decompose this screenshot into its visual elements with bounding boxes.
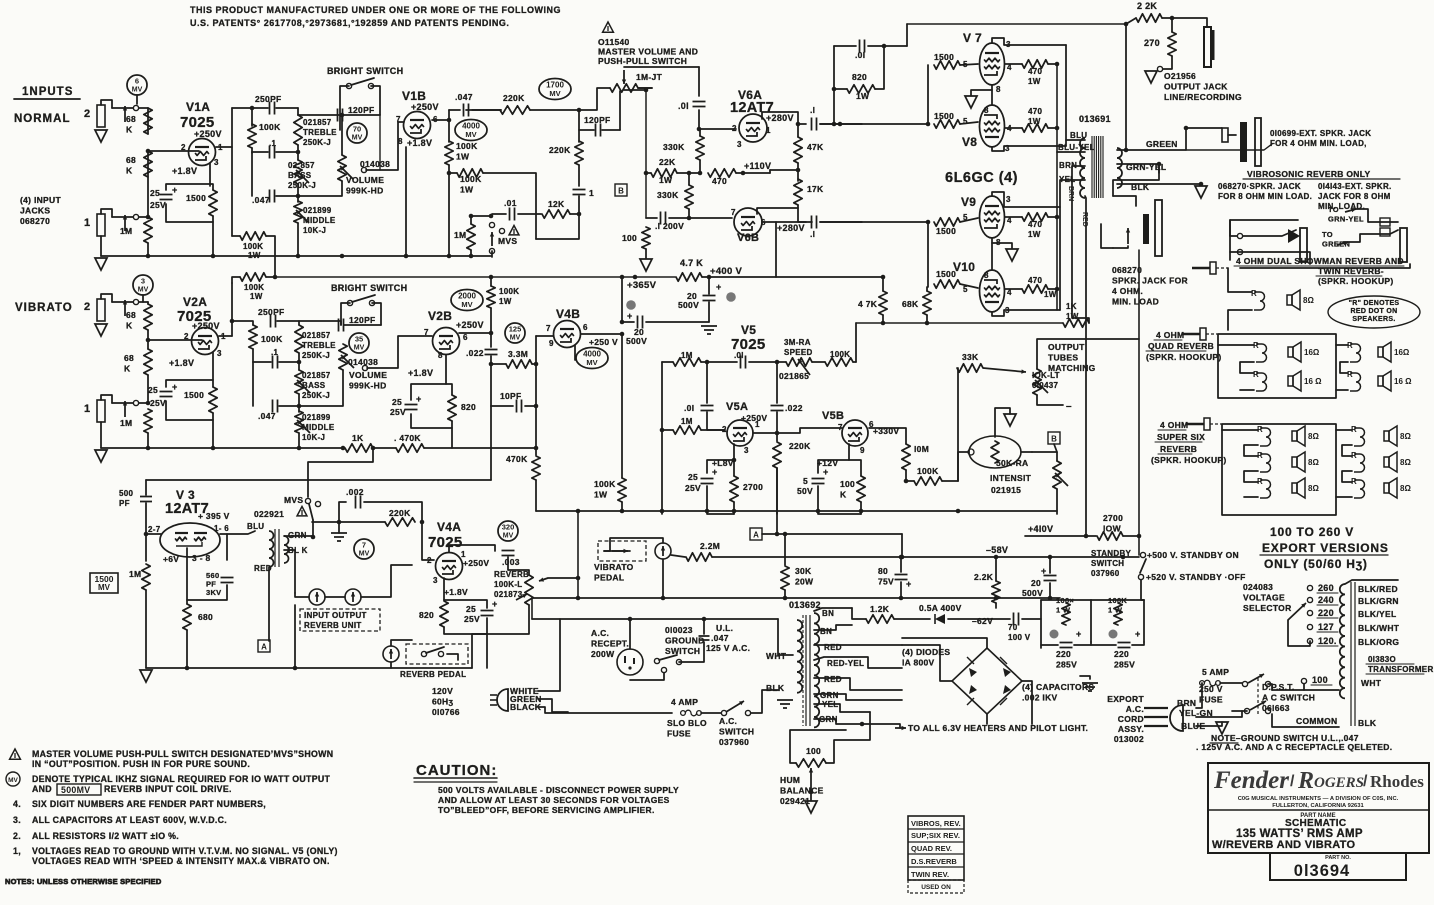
- label 010699 EXT SPKR JACK FOR 4 OHM MIN LOAD: [1270, 129, 1371, 148]
- label (4) DIODES 1A 800V: [902, 647, 950, 668]
- label 014143 EXT SPKR JACK FOR 8 OHM MIN LOAD: [1318, 182, 1392, 211]
- svg-text:1 W: 1 W: [1056, 606, 1071, 615]
- svg-text:REVERB: REVERB: [1160, 444, 1197, 454]
- svg-text:–62V: –62V: [972, 616, 993, 626]
- capacitor 220 285V: [1118, 643, 1131, 648]
- diode 0.5A 400V: [935, 614, 945, 624]
- svg-text:1500: 1500: [934, 111, 954, 121]
- svg-text:250PF: 250PF: [258, 307, 285, 317]
- wire: [448, 110, 450, 142]
- wire: [960, 122, 978, 124]
- ext speaker jack 010699: [1222, 118, 1261, 166]
- resistor 1500: [209, 387, 217, 413]
- wire: [411, 384, 452, 400]
- svg-text:+280V: +280V: [766, 113, 794, 123]
- wire: [812, 361, 825, 363]
- underline: [1158, 429, 1186, 431]
- svg-text:5 AMP: 5 AMP: [1202, 667, 1229, 677]
- svg-text:R: R: [1253, 370, 1259, 379]
- label 100K 1W: [1108, 596, 1127, 615]
- wire: [645, 249, 647, 258]
- junction: [469, 254, 474, 259]
- svg-text:+400 V: +400 V: [710, 266, 743, 277]
- input jack 2: [97, 105, 105, 127]
- capacitor 560PF 3KV: [221, 578, 234, 583]
- resistor 4.7K: [676, 273, 702, 281]
- resistor 1500 grid V8: [934, 120, 960, 128]
- wire: [297, 108, 299, 115]
- wire 220K down: [776, 468, 778, 534]
- wire: [186, 548, 188, 604]
- svg-text:DENOTE TYPICAL IKHZ SIGNAL: DENOTE TYPICAL IKHZ SIGNAL REQUIRED FOR …: [32, 774, 331, 784]
- svg-text:BLK/YEL: BLK/YEL: [1358, 609, 1396, 619]
- resistor 33K: [957, 364, 983, 372]
- potentiometer 3M-RA speed: [786, 358, 812, 375]
- svg-text:250K-J: 250K-J: [288, 181, 316, 190]
- wire: [490, 308, 492, 347]
- terminal: [1307, 610, 1312, 615]
- switch lever: [426, 647, 444, 653]
- svg-text:TRANSFORMER: TRANSFORMER: [1368, 665, 1434, 674]
- signal level marker: [349, 333, 369, 353]
- svg-text:470: 470: [1028, 67, 1042, 76]
- svg-text:PEDAL: PEDAL: [594, 573, 624, 583]
- wire: [1342, 445, 1352, 456]
- wire: [960, 284, 978, 288]
- svg-text:1,: 1,: [13, 846, 21, 856]
- svg-text:021857: 021857: [302, 331, 331, 340]
- wire: [252, 349, 254, 362]
- label 021857 TREBLE 250K-J: [303, 118, 337, 147]
- capacitor 250PF: [270, 102, 275, 115]
- svg-text:013002: 013002: [1114, 734, 1144, 744]
- wire: [535, 480, 537, 511]
- B+ rail: [275, 276, 675, 278]
- capacitor 500PF: [140, 497, 152, 502]
- resistor 100K 1W plate feed: [240, 232, 266, 240]
- wire: [958, 452, 969, 481]
- wire: [447, 654, 458, 660]
- wire drive upper: [820, 123, 928, 125]
- svg-text:1500: 1500: [936, 226, 956, 236]
- svg-text:+: +: [1135, 629, 1141, 639]
- svg-text:068270: 068270: [1112, 265, 1142, 275]
- junction: [296, 194, 301, 199]
- label 68K: [124, 353, 134, 374]
- junction: [832, 122, 837, 127]
- svg-text:l0M: l0M: [914, 444, 929, 454]
- resistor 330K: [685, 185, 693, 209]
- wire: [1171, 18, 1173, 32]
- wire: [707, 412, 725, 430]
- junction: [146, 149, 151, 154]
- junction: [273, 275, 278, 280]
- junction: [576, 509, 581, 514]
- ground V9 V10 cathodes: [1006, 249, 1018, 261]
- junction: [1184, 126, 1189, 131]
- svg-text:25V: 25V: [390, 407, 406, 417]
- label 68K: [126, 114, 136, 135]
- wire: [1232, 710, 1247, 712]
- svg-text:BLK/GRN: BLK/GRN: [1358, 596, 1399, 606]
- svg-text:RED: RED: [824, 675, 842, 684]
- AC switch lever arrow: [726, 701, 744, 712]
- svg-text:.0l: .0l: [855, 50, 865, 60]
- svg-text:BLK/WHT: BLK/WHT: [1358, 623, 1400, 633]
- junction: [687, 216, 692, 221]
- wire: [1005, 63, 1022, 65]
- volume wiper terminal: [361, 167, 366, 172]
- junction: [297, 360, 302, 365]
- svg-text:25V: 25V: [685, 483, 701, 493]
- wire: [749, 361, 786, 363]
- label 220 285V: [1056, 649, 1077, 670]
- jack tip arrow: [1288, 229, 1300, 243]
- potentiometer VOLUME 999K-HD: [338, 155, 353, 181]
- speaker: [1292, 426, 1319, 446]
- svg-text:8: 8: [984, 271, 989, 280]
- terminal: [305, 498, 310, 503]
- svg-text:8Ω: 8Ω: [1308, 432, 1319, 441]
- wire: [688, 173, 690, 185]
- junction: [882, 44, 887, 49]
- label 470 1W: [1028, 107, 1042, 126]
- svg-text:.0l: .0l: [678, 101, 689, 111]
- svg-text:7: 7: [731, 208, 736, 217]
- resistor 1500 grid V9: [934, 218, 960, 226]
- wire common: [1272, 714, 1339, 727]
- svg-text:4 OHM DUAL SHOWMAN REVERB: 4 OHM DUAL SHOWMAN REVERB AND: [1236, 256, 1404, 266]
- resistor 1500: [209, 190, 217, 216]
- wire: [621, 277, 623, 322]
- wire bright to treble top: [299, 321, 341, 325]
- terminal: [1307, 597, 1312, 602]
- wire: [295, 593, 309, 597]
- wire: [834, 45, 856, 47]
- wire: [373, 447, 396, 449]
- wire BLUE: [1196, 722, 1222, 726]
- resistor 100K 1W horizontal: [457, 169, 483, 177]
- svg-text:8Ω: 8Ω: [1400, 484, 1411, 493]
- junction: [633, 275, 638, 280]
- wire: [1141, 580, 1144, 600]
- R coil quad: [1253, 370, 1267, 391]
- resistor 10M: [902, 444, 910, 470]
- underline caution 2: [414, 781, 497, 783]
- label R DENOTES RED DOT ON SPEAKERS: [1349, 300, 1400, 323]
- resistor 2.2M: [686, 553, 712, 561]
- svg-text:K: K: [126, 166, 133, 176]
- svg-text:+1.8V: +1.8V: [169, 358, 194, 368]
- wire up to output jack: [1125, 24, 1127, 150]
- svg-text:470: 470: [1028, 220, 1042, 229]
- wire: [1117, 183, 1201, 185]
- wire: [339, 521, 385, 523]
- jack 2 contact arrow: [123, 106, 127, 122]
- title block outer box: [1208, 763, 1429, 853]
- wire: [604, 538, 663, 551]
- switch lever: [351, 78, 374, 85]
- svg-text:–: –: [1066, 401, 1072, 412]
- svg-text:.l 200V: .l 200V: [655, 221, 684, 231]
- wire: [1336, 389, 1348, 391]
- wire: [339, 502, 346, 522]
- svg-text:INPUT OUTPUT: INPUT OUTPUT: [304, 611, 367, 620]
- label 100K 1W: [460, 174, 482, 195]
- switch lever: [352, 295, 375, 302]
- wire: [995, 408, 1010, 437]
- svg-text:A C SWITCH: A C SWITCH: [1262, 693, 1315, 703]
- svg-text:EXPORT VERSIONS: EXPORT VERSIONS: [1262, 541, 1389, 555]
- svg-text:1500: 1500: [184, 390, 204, 400]
- wire: [578, 165, 580, 186]
- svg-text:MV: MV: [465, 130, 476, 139]
- title block divider: [1208, 809, 1429, 811]
- junction: [250, 106, 255, 111]
- svg-text:B: B: [618, 187, 624, 196]
- terminal: [489, 248, 494, 253]
- wire return to V4A grid: [361, 565, 412, 597]
- svg-text:999K-HD: 999K-HD: [346, 186, 384, 196]
- jack 1 sleeve to bus: [100, 236, 102, 256]
- resistor 470 1W V10: [1022, 285, 1048, 293]
- wire from coupling node: [490, 406, 492, 480]
- wire: [1040, 600, 1042, 648]
- wire: [1222, 429, 1258, 431]
- svg-text:REVERB INPUT COIL DRIVE.: REVERB INPUT COIL DRIVE.: [104, 784, 232, 794]
- capacitor .01: [693, 102, 706, 107]
- svg-text:NORMAL: NORMAL: [14, 113, 70, 125]
- svg-text:SLO BLO: SLO BLO: [667, 718, 707, 728]
- wire: [232, 235, 240, 237]
- R coil quad: [1347, 370, 1361, 391]
- wire: [1049, 583, 1051, 598]
- wire bottom: [1240, 264, 1410, 268]
- node A: [258, 640, 270, 652]
- label 100K 1W: [499, 287, 519, 306]
- svg-text:5: 5: [803, 476, 808, 486]
- svg-text:JACK FOR 8 OHM: JACK FOR 8 OHM: [1318, 192, 1391, 201]
- svg-text:MV: MV: [586, 358, 597, 367]
- wire push-pull: [624, 66, 699, 68]
- label DPST AC SWITCH 061663: [1262, 682, 1315, 713]
- resistor 100K 1W: [445, 141, 453, 165]
- tap underline: [1317, 617, 1338, 619]
- svg-text:0I0766: 0I0766: [432, 707, 460, 717]
- junction: [489, 214, 494, 219]
- wire in pedal box: [604, 550, 630, 552]
- quad hookup loop: [1218, 334, 1336, 398]
- svg-text:8Ω: 8Ω: [1308, 484, 1319, 493]
- wire: [894, 618, 930, 620]
- terminal: [1242, 681, 1247, 686]
- svg-text:1W: 1W: [856, 91, 870, 101]
- wire: [814, 657, 902, 668]
- wire cathode rc top: [166, 184, 213, 190]
- svg-text:02:857: 02:857: [288, 161, 315, 170]
- svg-text:250PF: 250PF: [255, 94, 282, 104]
- ground output jack: [1145, 71, 1157, 83]
- junction: [926, 122, 931, 127]
- wire: [820, 221, 862, 223]
- wire: [1240, 389, 1254, 391]
- junction: [489, 275, 494, 280]
- svg-text:330K: 330K: [657, 190, 679, 200]
- triode V6A: [739, 114, 767, 142]
- capacitor 20 500V: [1044, 576, 1057, 581]
- bias line -58V: [712, 556, 1139, 558]
- junction: [698, 171, 703, 176]
- label 1K 1W: [1066, 302, 1079, 321]
- terminal: [654, 658, 659, 663]
- capacitor 20 500V: [638, 316, 643, 329]
- svg-text:25: 25: [688, 472, 698, 482]
- resistor 68K lower: [144, 349, 152, 375]
- svg-text:FULLERTON, CALIFORNIA 92631: FULLERTON, CALIFORNIA 92631: [1272, 803, 1364, 809]
- svg-text:STANDBY: STANDBY: [1091, 549, 1132, 558]
- wire: [733, 460, 735, 476]
- wire: [1048, 63, 1057, 65]
- triode V4B: [554, 321, 581, 348]
- wire to gnd bus: [147, 243, 149, 256]
- underline: [1260, 554, 1388, 556]
- wire: [531, 598, 533, 619]
- svg-text:VOLUME: VOLUME: [346, 175, 384, 185]
- wire to tone stack: [232, 107, 268, 109]
- input jack 2 vibrato: [97, 299, 105, 321]
- wire: [621, 334, 623, 478]
- resistor 100K 1W: [240, 273, 266, 281]
- svg-text:50V: 50V: [797, 486, 813, 496]
- junction: [732, 458, 737, 463]
- wire: [900, 557, 902, 572]
- wire: [1005, 216, 1022, 218]
- svg-text:10K-J: 10K-J: [302, 433, 325, 442]
- svg-text:+: +: [823, 467, 829, 477]
- svg-text:SIX DIGIT NUMBERS ARE FEND: SIX DIGIT NUMBERS ARE FENDER PART NUMBER…: [32, 799, 266, 809]
- label 68K: [126, 310, 136, 331]
- screen bus upper: [1056, 64, 1058, 152]
- svg-text:8: 8: [996, 85, 1001, 94]
- svg-text:220: 220: [1318, 608, 1334, 618]
- jack terminal: [133, 299, 138, 304]
- junction: [620, 275, 625, 280]
- wire: [279, 361, 299, 363]
- wire: [769, 170, 771, 173]
- wire: [252, 362, 254, 406]
- wire: [411, 414, 452, 428]
- wire: [112, 402, 148, 404]
- model table: [908, 816, 964, 880]
- wire to V4B grid node: [424, 447, 536, 449]
- terminal: [421, 651, 426, 656]
- wire: [1220, 682, 1242, 684]
- resistor 820: [448, 395, 456, 421]
- wire: [1352, 209, 1398, 222]
- wire: [444, 600, 487, 608]
- signal level marker: [498, 521, 518, 541]
- R coil super six: [1257, 425, 1271, 446]
- wire: [1229, 220, 1231, 260]
- svg-text:PUSH-PULL SWITCH: PUSH-PULL SWITCH: [598, 56, 687, 66]
- wire: [276, 151, 298, 153]
- wire: [251, 108, 253, 126]
- wire BLK/RED top: [1345, 580, 1398, 584]
- label 70 100V: [1008, 623, 1031, 642]
- wire: [834, 88, 847, 90]
- wire BLU-YEL: [1057, 151, 1085, 153]
- svg-text:100: 100: [806, 746, 821, 756]
- speaker: [1378, 371, 1412, 391]
- junction: [1199, 182, 1204, 187]
- plate wire V6B: [762, 221, 806, 223]
- wire: [1230, 230, 1296, 236]
- label 470 1W: [1028, 67, 1042, 86]
- svg-text:+1.8V: +1.8V: [172, 166, 197, 176]
- ground: [1004, 414, 1016, 426]
- primary winding: [269, 531, 274, 567]
- wire BLK down: [284, 550, 295, 593]
- wire: [629, 619, 631, 649]
- svg-text:MV: MV: [132, 87, 143, 94]
- svg-text:MV: MV: [461, 300, 472, 309]
- wire: [638, 87, 652, 89]
- jack contact block: [1380, 218, 1390, 236]
- svg-text:022921: 022921: [254, 509, 284, 519]
- terminal: [721, 710, 726, 715]
- svg-text:100K: 100K: [917, 466, 939, 476]
- svg-text:0l0437: 0l0437: [1032, 381, 1059, 390]
- plate wire V9: [992, 192, 1060, 207]
- wire: [147, 330, 149, 349]
- chassis ground primary: [777, 700, 793, 708]
- node B: [1048, 432, 1060, 444]
- wire: [343, 114, 380, 116]
- label 500PF: [119, 489, 133, 508]
- wire: [1228, 268, 1252, 292]
- ground secondary BLK: [1195, 186, 1207, 198]
- svg-text:A.C.: A.C.: [719, 716, 737, 726]
- capacitor 120PF: [338, 109, 343, 122]
- label VIBRATO PEDAL: [594, 562, 634, 583]
- svg-text:FOR 4 OHM MIN. LOAD,: FOR 4 OHM MIN. LOAD,: [1270, 139, 1367, 148]
- wire bridge top: [902, 638, 987, 648]
- cathode wire: [445, 355, 447, 384]
- junction: [340, 113, 345, 118]
- svg-text:1- 6: 1- 6: [214, 524, 229, 533]
- wire: [266, 276, 275, 278]
- part number box: [1270, 853, 1406, 880]
- svg-text:1: 1: [755, 420, 760, 429]
- svg-text:100K: 100K: [594, 479, 616, 489]
- svg-text:024083: 024083: [1243, 582, 1273, 592]
- svg-text:.047: .047: [711, 633, 729, 643]
- wire: [1244, 496, 1258, 498]
- terminal: [368, 83, 373, 88]
- resistor 220K: [385, 518, 415, 526]
- triode V5A: [727, 420, 753, 446]
- terminal: [1140, 552, 1145, 557]
- underline: [1234, 265, 1404, 267]
- wire: [960, 64, 978, 65]
- capacitor .1 200V: [661, 212, 666, 225]
- switch lever: [1140, 559, 1146, 573]
- svg-text:25: 25: [466, 604, 476, 614]
- wire: [906, 24, 908, 46]
- svg-text:QUAD REVERB: QUAD REVERB: [1148, 341, 1214, 351]
- tap underline: [1317, 604, 1338, 606]
- svg-text:O11540: O11540: [598, 37, 630, 47]
